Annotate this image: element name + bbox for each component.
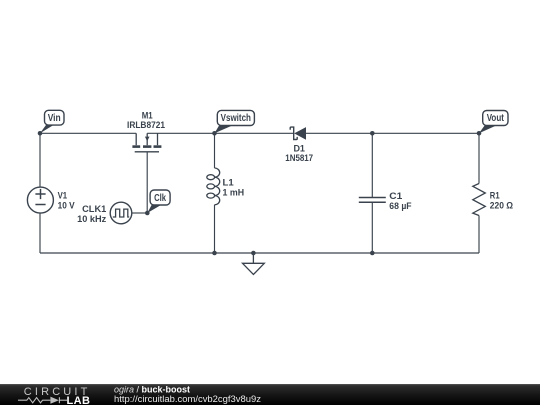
svg-text:CLK1: CLK1 [82,204,106,214]
svg-text:1N5817: 1N5817 [285,153,313,163]
wire C1 bottom lead [371,203,373,253]
node Vout dot [477,131,482,136]
svg-text:10 V: 10 V [58,201,75,211]
wire M1 gate down to Clk node [146,152,148,213]
wire Vswitch node down to L1 top [214,133,216,168]
svg-text:Vswitch: Vswitch [221,113,251,124]
ground [243,253,265,275]
wire CLK1 output to Clk node [132,212,147,214]
svg-text:Vout: Vout [487,113,505,124]
wire Vin node down to V1 plus terminal [39,133,41,187]
node C1-bottom junction dot [370,251,375,256]
svg-text:C1: C1 [389,191,402,201]
svg-text:Clk: Clk [154,193,166,204]
label C1 value [389,191,412,211]
label R1 value [490,191,513,211]
CircuitLab logo resistor-diode glyph [18,397,67,403]
wire bottom rail ground junction to C1 bottom [253,252,372,254]
node Vswitch dot [212,131,217,136]
resistor R1 [473,184,486,216]
svg-text:http://circuitlab.com/cvb2cgf3: http://circuitlab.com/cvb2cgf3v8u9z [114,394,262,404]
svg-text:Vin: Vin [48,113,61,124]
svg-text:L1: L1 [223,177,234,187]
transistor M1 (NMOS IRLB8721) [132,133,161,152]
wire M1 source/body to Vswitch node [147,132,214,134]
diode D1 (Schottky 1N5817) [290,127,306,140]
svg-text:220 Ω: 220 Ω [490,201,513,211]
wire bottom rail V1 to L1 bottom [40,252,215,254]
wire L1 bottom lead [214,205,216,253]
clock source CLK1 [110,202,132,224]
wire Vin node to M1 drain [40,132,136,134]
svg-text:LAB: LAB [67,395,91,405]
svg-text:M1: M1 [142,110,153,120]
svg-text:1 mH: 1 mH [223,188,245,198]
svg-text:68 µF: 68 µF [389,201,412,211]
node L1-bottom junction dot [212,251,217,256]
svg-text:R1: R1 [490,191,500,201]
label L1 value [223,177,245,197]
node Vin flag [40,110,64,133]
node ground junction dot [251,251,256,256]
wire R1 bottom lead [478,216,480,254]
svg-text:10 kHz: 10 kHz [77,214,107,224]
wire D1 anode to C1 top junction [306,132,372,134]
label D1 value [285,144,313,163]
node C1-top junction dot [370,131,375,136]
node Clk dot [145,211,150,216]
wire Vout node down to R1 top [478,133,480,183]
label V1 value [58,191,75,211]
node Vout flag [479,111,508,134]
label CLK1 value [77,204,107,224]
wire bottom rail C1 bottom to R1 bottom [372,252,479,254]
wire C1 top lead [371,133,373,197]
svg-text:IRLB8721: IRLB8721 [127,120,165,130]
node Vin dot [38,131,43,136]
voltage source V1 [27,187,53,213]
wire bottom rail L1 to ground junction [215,252,254,254]
capacitor C1 [359,198,386,203]
inductor L1 [207,168,220,205]
node Vswitch flag [215,110,255,133]
label M1 [127,110,165,130]
wire V1 minus terminal to bottom rail [39,213,41,253]
wire C1 top junction to Vout node [372,132,479,134]
svg-text:V1: V1 [58,191,68,201]
node Clk flag [147,190,170,213]
wire Vswitch node to D1 cathode [215,132,294,134]
